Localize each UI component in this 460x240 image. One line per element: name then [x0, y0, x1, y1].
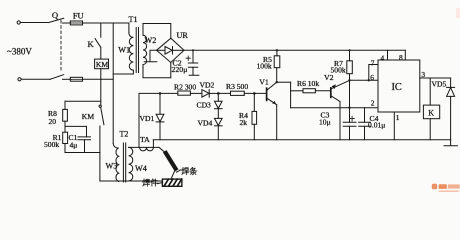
wire R7 top to rail — [349, 50, 351, 61]
wire W2 top to bridge AC top — [143, 24, 171, 39]
wire pin7 bracket — [369, 65, 378, 81]
wire VD2 to R3 with junction — [209, 92, 230, 94]
svg-text:FU: FU — [73, 11, 84, 20]
ground at bridge left vertex — [144, 50, 157, 62]
svg-text:220μ: 220μ — [172, 65, 188, 74]
svg-text:焊件: 焊件 — [142, 177, 158, 187]
wire TA right end to rail start — [152, 140, 154, 147]
wire R1/C1 bottom — [65, 144, 100, 153]
svg-text:2k: 2k — [240, 118, 248, 127]
svg-text:R6 10k: R6 10k — [297, 79, 319, 88]
diode VD5 — [447, 78, 455, 140]
node: phase B input terminal — [18, 78, 21, 81]
svg-text:K: K — [428, 109, 434, 118]
node R7 rail tap — [348, 49, 350, 51]
svg-text:VD5: VD5 — [432, 80, 447, 89]
switch K — [95, 39, 101, 48]
svg-text:8: 8 — [399, 53, 403, 62]
wire electrode tip to workpiece — [171, 169, 176, 179]
wire relay K branch — [429, 78, 431, 105]
capacitor C3 — [343, 116, 356, 140]
wire R4 bottom to rail — [253, 124, 255, 140]
wire R7 bottom to node J1 — [349, 74, 351, 81]
diode VD3 (labelled CD3) — [215, 93, 223, 108]
wire fuse B to W1 branch — [83, 78, 114, 80]
wire pin6 — [350, 79, 379, 81]
wire phase A corner down to W1 top — [128, 23, 130, 33]
wire T1 primary branch (vertical) — [112, 23, 114, 143]
wire R6 to V2 base — [315, 90, 330, 92]
svg-text:100k: 100k — [257, 62, 272, 71]
resistor R5 — [274, 56, 280, 68]
ground symbol right — [444, 140, 457, 146]
wire KM coil to phase B — [100, 69, 102, 105]
capacitor C4 — [359, 108, 371, 140]
node V1 collector junction — [276, 81, 278, 83]
wire R5 top to rail — [276, 50, 278, 56]
wire R4 top — [253, 93, 255, 111]
wire sense line horizontal — [139, 92, 178, 94]
electrode (welding rod) — [166, 153, 176, 169]
wire K bottom to rail — [429, 119, 431, 140]
svg-text:W1: W1 — [118, 45, 130, 54]
watermark bottom right — [432, 8, 460, 192]
wire switch Q to fuse FU (pole A) — [63, 22, 71, 24]
svg-text:7: 7 — [371, 59, 375, 68]
wire switch Q to fuse FU (pole B) — [63, 78, 71, 80]
svg-text:10μ: 10μ — [319, 117, 331, 126]
svg-text:0.01μ: 0.01μ — [368, 120, 385, 129]
control sub-circuit: wire R8/KM top — [65, 100, 101, 102]
switch Q pole B blade — [50, 75, 64, 80]
svg-text:VD1: VD1 — [140, 114, 155, 123]
svg-text:500k: 500k — [331, 66, 346, 75]
node junction VD3 chain — [217, 92, 220, 95]
node pin7 bracket junction — [368, 79, 370, 81]
svg-text:1: 1 — [396, 113, 400, 122]
wire pin8 stub — [404, 50, 406, 60]
wire R2 to VD2 — [190, 92, 202, 94]
wire weld circuit top — [129, 146, 159, 148]
wire V1 collector up to R5 — [276, 68, 278, 83]
wire sense line left end (down to TA) — [138, 93, 140, 147]
switch Q mechanical link (dashed) — [60, 21, 62, 73]
diode VD1 — [156, 93, 164, 139]
node: phase A input terminal — [17, 21, 20, 24]
svg-text:V1: V1 — [259, 78, 269, 87]
transistor V1 — [267, 82, 277, 105]
node R5 rail tap — [276, 49, 278, 51]
wire W1 bottom to branch — [113, 70, 133, 74]
svg-text:R2 300: R2 300 — [174, 82, 196, 91]
svg-text:4: 4 — [381, 53, 385, 62]
wire V2 collector down to rail — [339, 102, 341, 140]
contact KM (normally open) — [99, 105, 104, 125]
bridge rectifier UR — [157, 38, 185, 62]
resistor R2 — [178, 91, 191, 95]
IC box — [378, 60, 420, 112]
resistor R3 — [231, 91, 245, 95]
winding W4 of T2 — [129, 147, 133, 181]
svg-text:TA: TA — [140, 135, 150, 144]
wire ground rail (bottom) — [153, 139, 450, 141]
svg-text:KM: KM — [96, 60, 108, 69]
svg-text:T1: T1 — [129, 15, 138, 24]
svg-text:IC: IC — [392, 82, 402, 93]
fuse FU pole B — [70, 77, 82, 81]
label callout tick — [177, 170, 181, 172]
wire V1 collector to feedback branch — [277, 81, 291, 83]
workpiece 焊件 (hatched) — [162, 179, 182, 186]
wire fuse A to T1 primary corner — [83, 22, 129, 24]
wire V1 emitter down to rail — [276, 105, 278, 140]
resistor R4 — [252, 111, 257, 124]
winding W1 of T1 — [129, 33, 134, 70]
svg-text:W3: W3 — [106, 162, 118, 171]
wire phase A to switch Q — [20, 22, 48, 24]
transistor V2 — [331, 80, 350, 101]
wire R3 to V1 base — [244, 92, 266, 94]
wire R6 tap — [291, 90, 303, 92]
winding W2 of T1 — [143, 35, 147, 64]
wire W2 bottom to bridge AC bottom — [143, 63, 171, 78]
contactor coil KM — [95, 59, 109, 69]
wire pin4 stub — [387, 50, 389, 60]
svg-text:4μ: 4μ — [70, 140, 78, 149]
svg-text:VD4: VD4 — [198, 119, 213, 128]
svg-text:KM: KM — [82, 112, 95, 121]
wire R8 stub — [64, 101, 66, 109]
svg-text:W4: W4 — [135, 164, 147, 173]
wire electrode lead diagonal — [159, 147, 166, 153]
fuse FU pole A — [70, 21, 82, 25]
svg-text:焊条: 焊条 — [181, 166, 197, 176]
wire R8 bottom / C1 tap — [64, 121, 66, 132]
resistor R1 — [63, 132, 68, 143]
svg-text:UR: UR — [177, 31, 189, 40]
wire KM contact down — [99, 126, 101, 181]
svg-text:20: 20 — [49, 117, 57, 126]
T2 core — [123, 143, 125, 182]
wire pin1 stub to rail — [393, 112, 395, 140]
svg-text:500k: 500k — [44, 140, 59, 149]
svg-text:R3 500: R3 500 — [226, 82, 248, 91]
capacitor C2 — [186, 50, 199, 75]
svg-text:T2: T2 — [120, 130, 129, 139]
svg-text:3: 3 — [421, 70, 425, 79]
svg-text:W2: W2 — [145, 36, 157, 45]
resistor R6 — [303, 89, 315, 93]
capacitor C1 — [78, 126, 91, 152]
svg-text:VD2: VD2 — [200, 80, 215, 89]
wire K to contactor coil KM — [100, 47, 102, 59]
node junction R4 — [253, 92, 256, 95]
wire K/KM branch top — [100, 23, 102, 37]
wire phase B to switch Q — [21, 78, 50, 80]
node J1 (pins 6/7, V2 emitter) — [348, 79, 350, 81]
wire workpiece bottom — [100, 180, 162, 182]
wire feedback vertical — [290, 82, 292, 108]
svg-text:CD3: CD3 — [197, 100, 212, 109]
node pin2 junction — [348, 107, 350, 109]
svg-text:K: K — [88, 39, 95, 49]
wire pin3 — [420, 77, 451, 79]
diode VD2 — [202, 90, 209, 98]
svg-text:Q: Q — [52, 10, 59, 20]
node VD1 top junction — [159, 92, 162, 95]
wire J1 down to pin2 level and C3 — [349, 80, 351, 122]
node C2 tap — [192, 49, 194, 51]
winding W3 of T2 — [113, 143, 119, 181]
label callout tick for workpiece — [158, 183, 162, 184]
svg-text:2: 2 — [371, 98, 375, 107]
wire trigger net to IC pin 2 — [291, 107, 378, 109]
svg-text:~380V: ~380V — [7, 47, 32, 57]
T1 core — [136, 28, 138, 73]
wire DC+ rail (top) — [184, 49, 405, 51]
switch Q pole A blade — [49, 18, 64, 22]
relay coil K — [423, 105, 439, 119]
diode VD4 — [215, 109, 223, 140]
current transformer TA secondary — [140, 147, 154, 150]
resistor R7 — [347, 61, 353, 74]
resistor R8 — [63, 109, 68, 121]
svg-text:6: 6 — [370, 73, 374, 82]
